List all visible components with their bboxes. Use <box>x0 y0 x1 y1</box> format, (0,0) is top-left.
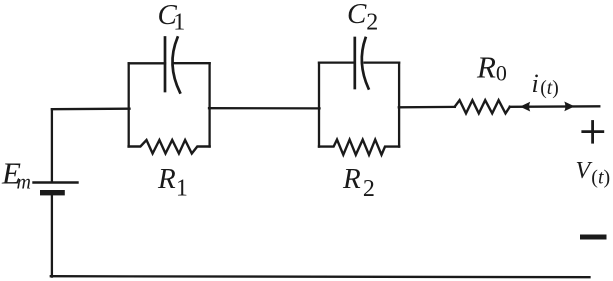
svg-text:2: 2 <box>363 176 375 202</box>
wire top-left horizontal segment <box>52 108 130 111</box>
RC block 1 top edge right part <box>175 62 210 64</box>
label R0 <box>476 49 507 85</box>
label R2 <box>342 163 375 202</box>
capacitor C2 <box>355 38 369 89</box>
RC block 2 top edge right part <box>365 61 400 63</box>
svg-text:(t): (t) <box>591 167 610 189</box>
label i(t) <box>532 69 559 99</box>
wire left vertical lower (battery to bottom) <box>51 195 53 276</box>
wire between block2 and R0 <box>399 106 455 109</box>
resistor R1 <box>129 140 210 154</box>
wire bottom horizontal <box>51 276 590 277</box>
label V(t) <box>576 158 611 189</box>
current arrow i(t) right arrowhead <box>564 102 574 112</box>
label E_m <box>1 156 31 194</box>
RC block 1 top edge left part <box>129 62 165 64</box>
capacitor C1 <box>165 38 180 93</box>
minus terminal <box>580 235 607 240</box>
wire from R0 to right terminal <box>510 105 600 108</box>
current arrow i(t) left arrowhead <box>520 102 530 112</box>
battery E_m <box>34 183 78 196</box>
RC block 2 frame left vertical <box>318 63 320 147</box>
svg-text:i: i <box>532 69 539 98</box>
plus terminal <box>583 122 603 143</box>
svg-text:V: V <box>576 158 593 184</box>
label C1 <box>158 0 186 35</box>
RC block 1 frame right vertical <box>208 63 210 146</box>
label R1 <box>157 163 188 202</box>
svg-text:R: R <box>157 163 176 195</box>
svg-text:m: m <box>17 171 31 193</box>
RC block 2 frame right vertical <box>398 63 400 147</box>
svg-text:R: R <box>476 49 496 84</box>
wire between block1 and block2 <box>209 107 320 110</box>
resistor R0 <box>455 100 510 113</box>
svg-text:1: 1 <box>176 176 188 202</box>
svg-text:(t): (t) <box>540 78 558 99</box>
wire left vertical upper (corner to battery) <box>51 109 53 182</box>
resistor R2 <box>319 140 399 155</box>
svg-text:2: 2 <box>366 9 378 35</box>
RC block 1 frame left vertical <box>128 63 130 146</box>
label C2 <box>347 0 378 35</box>
RC block 2 top edge left part <box>319 61 355 63</box>
svg-text:0: 0 <box>496 60 507 85</box>
svg-text:R: R <box>342 163 361 195</box>
svg-text:1: 1 <box>173 9 185 35</box>
svg-text:C: C <box>347 0 367 30</box>
